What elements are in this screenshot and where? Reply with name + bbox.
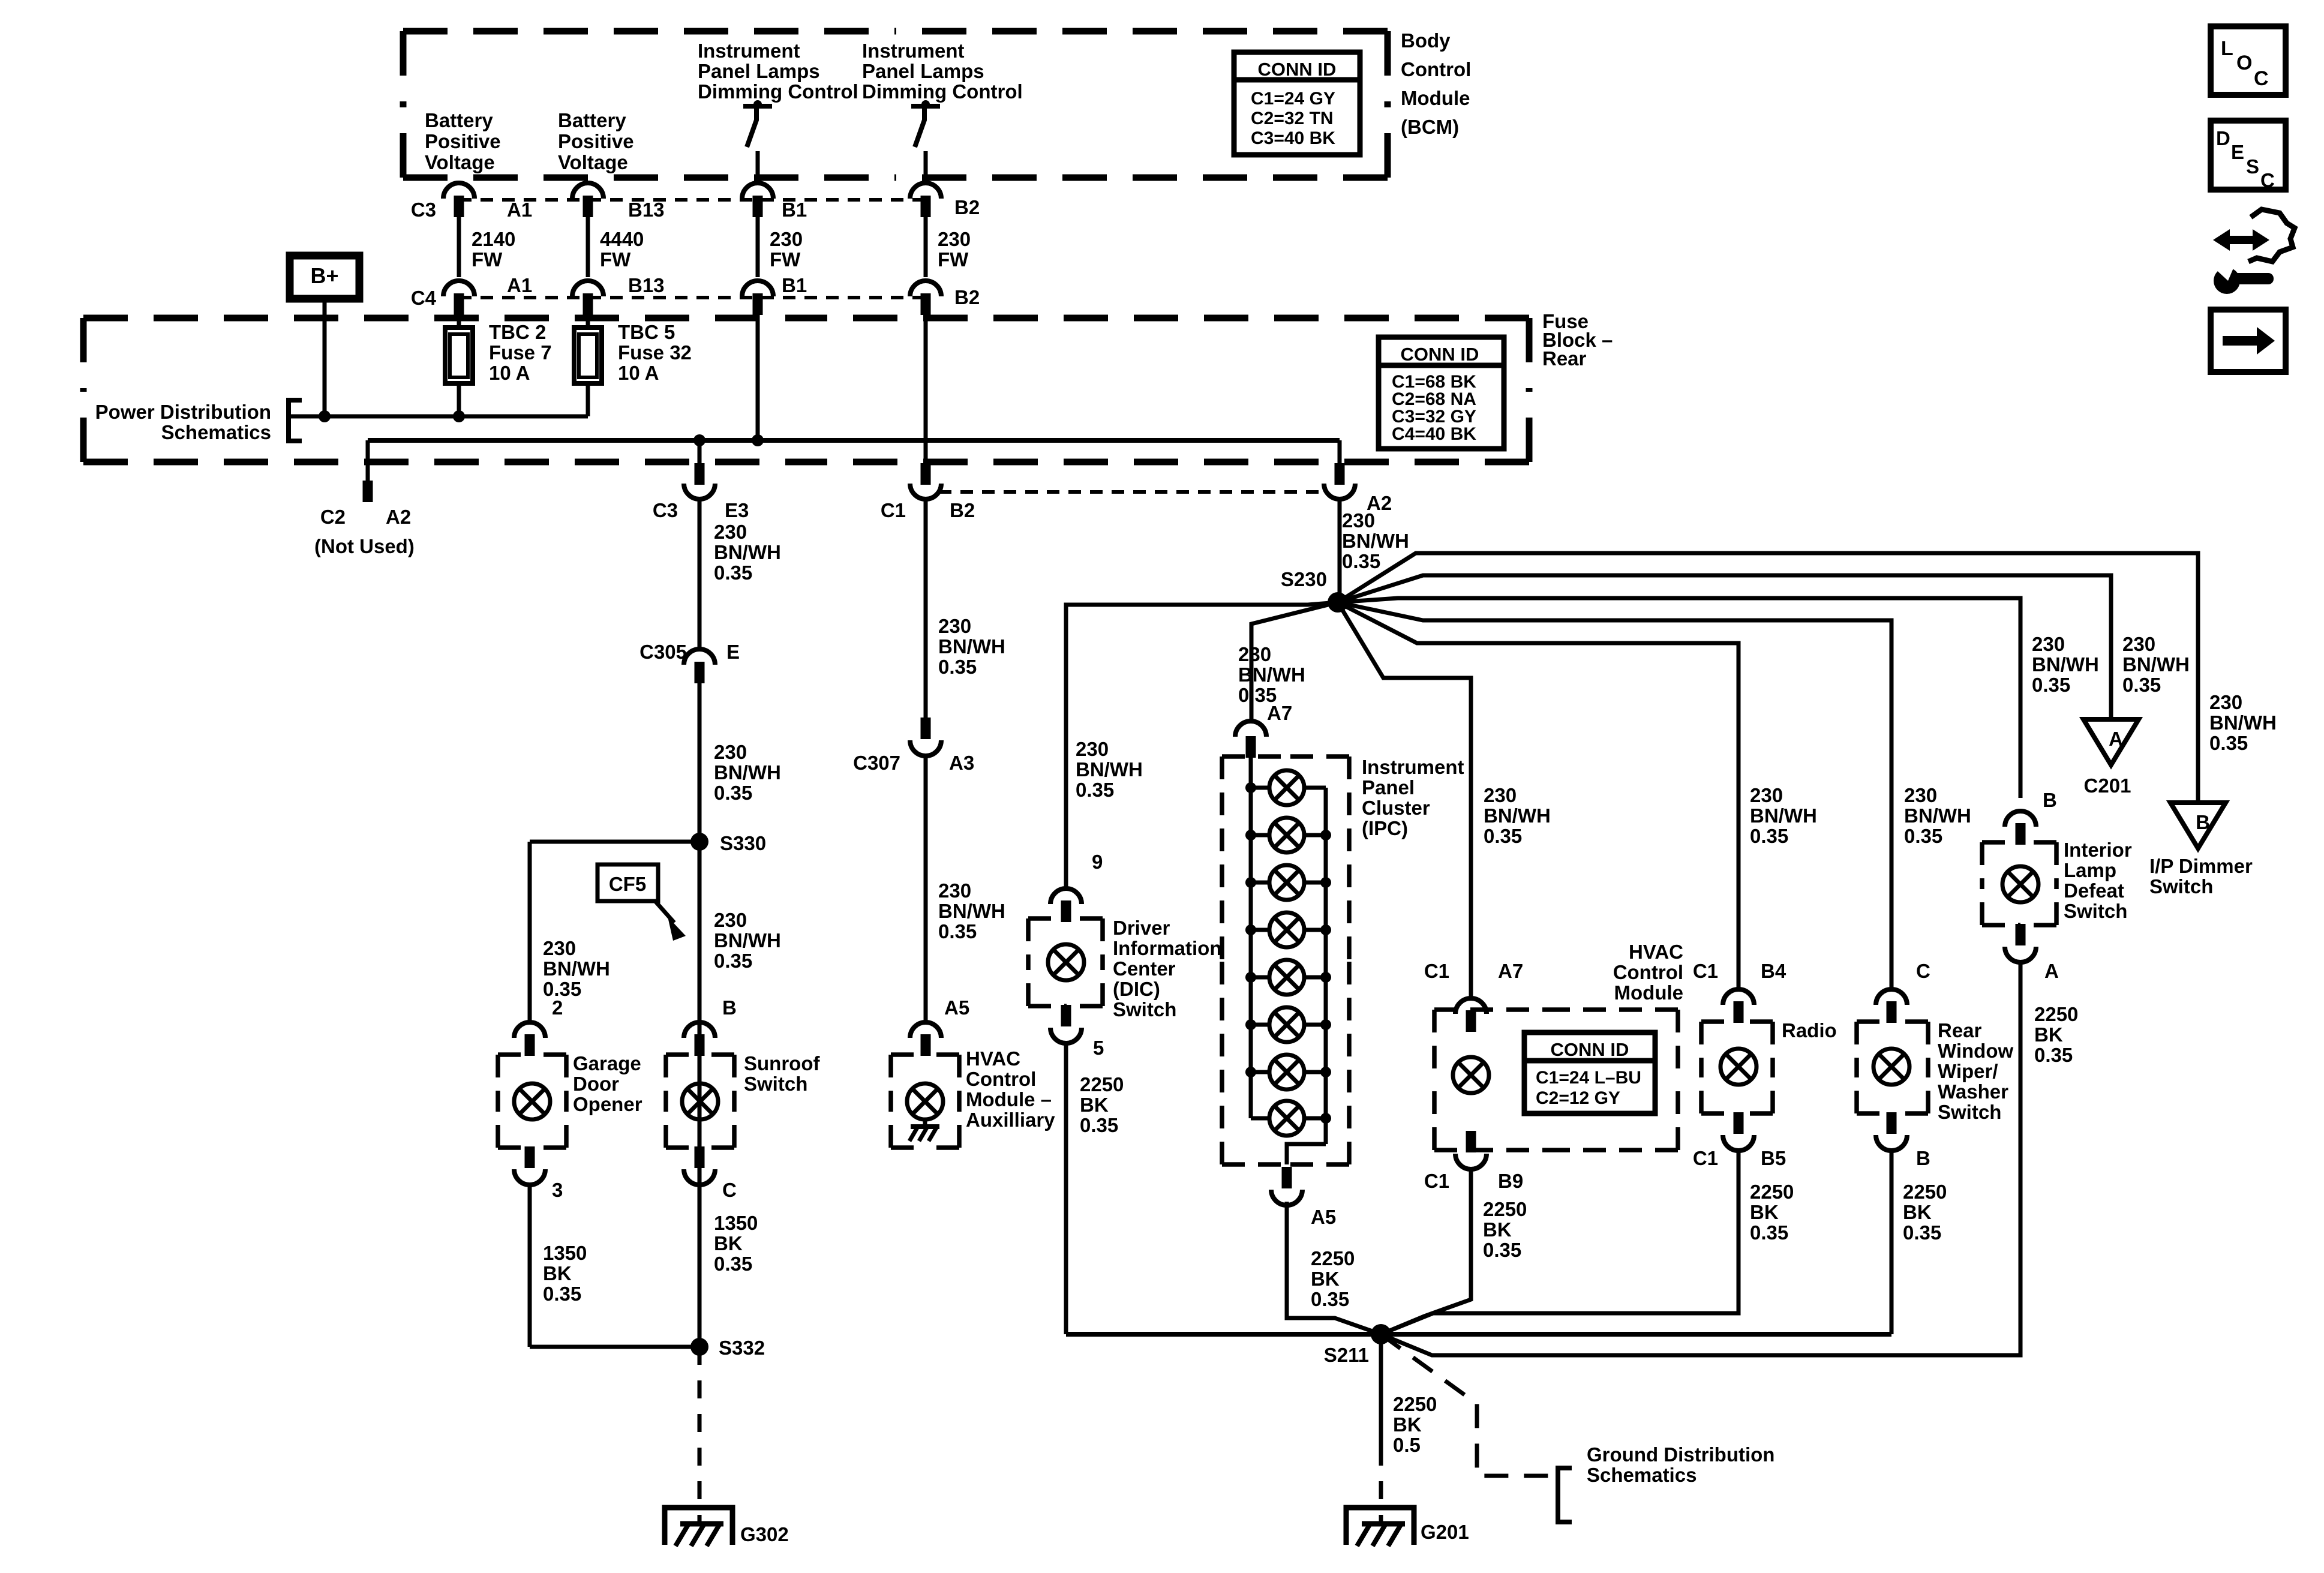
svg-text:FW: FW	[600, 248, 631, 271]
svg-text:230: 230	[714, 741, 747, 763]
svg-text:1350: 1350	[714, 1212, 758, 1234]
svg-text:230: 230	[770, 228, 803, 250]
svg-text:C3=40 BK: C3=40 BK	[1251, 128, 1335, 148]
svg-text:0.35: 0.35	[1750, 825, 1788, 847]
svg-text:Positive: Positive	[425, 130, 501, 152]
svg-text:230: 230	[543, 937, 576, 959]
svg-text:BK: BK	[543, 1262, 572, 1284]
svg-text:C2=32 TN: C2=32 TN	[1251, 109, 1334, 128]
svg-text:BN/WH: BN/WH	[938, 900, 1005, 922]
svg-text:230: 230	[714, 521, 747, 543]
svg-text:C1=24 L–BU: C1=24 L–BU	[1536, 1068, 1641, 1088]
svg-text:230: 230	[714, 909, 747, 931]
svg-text:C: C	[722, 1179, 737, 1201]
svg-text:TBC 2: TBC 2	[489, 321, 546, 343]
svg-text:0.35: 0.35	[714, 562, 752, 584]
svg-text:(IPC): (IPC)	[1362, 817, 1408, 839]
svg-text:Sunroof: Sunroof	[744, 1052, 820, 1074]
svg-text:(DIC): (DIC)	[1113, 978, 1160, 1000]
svg-text:Schematics: Schematics	[1587, 1464, 1697, 1486]
svg-text:2250: 2250	[2034, 1003, 2078, 1025]
svg-text:A5: A5	[944, 996, 969, 1019]
svg-text:Auxilliary: Auxilliary	[966, 1109, 1055, 1131]
svg-text:0.35: 0.35	[714, 950, 752, 972]
svg-text:B2: B2	[954, 286, 980, 308]
svg-text:BN/WH: BN/WH	[1342, 530, 1409, 552]
svg-text:BK: BK	[1311, 1268, 1340, 1290]
svg-text:Cluster: Cluster	[1362, 797, 1430, 819]
svg-text:230: 230	[1076, 738, 1109, 760]
svg-text:C1: C1	[1424, 960, 1449, 982]
svg-text:Rear: Rear	[1542, 347, 1587, 370]
svg-text:G302: G302	[740, 1523, 789, 1545]
svg-text:Battery: Battery	[425, 109, 493, 131]
svg-text:(BCM): (BCM)	[1401, 116, 1459, 138]
svg-text:Panel: Panel	[1362, 776, 1415, 798]
svg-text:Module: Module	[1614, 981, 1683, 1004]
svg-text:B1: B1	[782, 199, 807, 221]
svg-text:0.35: 0.35	[1750, 1221, 1788, 1244]
svg-text:Panel Lamps: Panel Lamps	[862, 60, 984, 82]
svg-text:0.35: 0.35	[1342, 550, 1380, 572]
svg-text:CONN ID: CONN ID	[1551, 1039, 1629, 1060]
svg-text:0.35: 0.35	[1904, 825, 1942, 847]
svg-text:C: C	[2260, 169, 2275, 191]
svg-text:230: 230	[1904, 784, 1937, 806]
svg-text:0.35: 0.35	[714, 782, 752, 804]
svg-text:Switch: Switch	[744, 1073, 807, 1095]
svg-text:FW: FW	[770, 248, 801, 271]
svg-text:A: A	[2044, 960, 2059, 982]
svg-text:10 A: 10 A	[618, 362, 659, 384]
svg-text:Control: Control	[1401, 58, 1471, 80]
svg-text:Panel Lamps: Panel Lamps	[698, 60, 820, 82]
svg-text:Washer: Washer	[1938, 1080, 2008, 1103]
svg-text:C1: C1	[1424, 1170, 1449, 1192]
svg-text:D: D	[2216, 127, 2230, 149]
svg-text:Switch: Switch	[2149, 875, 2213, 897]
svg-text:Switch: Switch	[1113, 998, 1176, 1020]
svg-text:Body: Body	[1401, 29, 1451, 52]
svg-text:Instrument: Instrument	[698, 40, 800, 62]
svg-text:(Not Used): (Not Used)	[314, 535, 415, 557]
svg-text:1350: 1350	[543, 1242, 587, 1264]
svg-text:0.35: 0.35	[2209, 732, 2248, 754]
svg-text:BK: BK	[714, 1232, 743, 1254]
svg-text:C201: C201	[2084, 775, 2131, 797]
svg-text:C3: C3	[653, 499, 678, 521]
svg-text:3: 3	[552, 1179, 563, 1201]
svg-text:0.35: 0.35	[1076, 779, 1114, 801]
svg-text:0.35: 0.35	[1903, 1221, 1941, 1244]
svg-text:C: C	[1916, 960, 1930, 982]
svg-text:S211: S211	[1324, 1344, 1369, 1366]
svg-text:Instrument: Instrument	[862, 40, 965, 62]
svg-text:BN/WH: BN/WH	[714, 541, 781, 563]
svg-text:L: L	[2221, 37, 2233, 60]
svg-text:CONN ID: CONN ID	[1401, 344, 1479, 365]
svg-text:FW: FW	[938, 248, 969, 271]
svg-text:E: E	[2231, 141, 2244, 163]
svg-text:HVAC: HVAC	[966, 1047, 1020, 1070]
svg-text:C2=12 GY: C2=12 GY	[1536, 1088, 1620, 1108]
svg-text:A3: A3	[949, 752, 974, 774]
svg-text:C1: C1	[1693, 1147, 1718, 1169]
svg-text:BN/WH: BN/WH	[1484, 804, 1551, 827]
svg-text:C2: C2	[320, 506, 346, 528]
svg-text:C1: C1	[1693, 960, 1718, 982]
svg-text:B: B	[2196, 811, 2210, 833]
svg-text:2: 2	[552, 996, 563, 1019]
svg-text:10 A: 10 A	[489, 362, 530, 384]
svg-text:0.35: 0.35	[2034, 1044, 2073, 1066]
svg-text:C1=24 GY: C1=24 GY	[1251, 89, 1335, 109]
svg-text:Voltage: Voltage	[425, 151, 495, 173]
svg-text:BK: BK	[1393, 1413, 1422, 1436]
svg-text:230: 230	[938, 615, 971, 637]
svg-text:BK: BK	[1080, 1094, 1109, 1116]
svg-text:S230: S230	[1281, 568, 1327, 590]
svg-text:A1: A1	[507, 199, 532, 221]
svg-text:BK: BK	[1750, 1201, 1779, 1223]
svg-text:A1: A1	[507, 274, 532, 296]
svg-text:B2: B2	[954, 196, 980, 218]
svg-text:0.35: 0.35	[1080, 1114, 1118, 1136]
svg-text:FW: FW	[472, 248, 503, 271]
svg-text:230: 230	[1342, 509, 1375, 532]
svg-text:Dimming Control: Dimming Control	[862, 80, 1023, 103]
svg-text:Rear: Rear	[1938, 1019, 1982, 1041]
svg-text:B2: B2	[950, 499, 975, 521]
svg-text:BK: BK	[2034, 1023, 2063, 1046]
svg-text:BN/WH: BN/WH	[1076, 758, 1143, 781]
svg-text:CF5: CF5	[609, 873, 646, 895]
svg-text:C307: C307	[853, 752, 900, 774]
svg-text:0.5: 0.5	[1393, 1434, 1421, 1456]
svg-text:0.35: 0.35	[2122, 674, 2161, 696]
svg-text:A5: A5	[1311, 1206, 1336, 1228]
svg-text:2250: 2250	[1393, 1393, 1437, 1415]
svg-text:BN/WH: BN/WH	[938, 635, 1005, 658]
svg-text:BN/WH: BN/WH	[2032, 653, 2099, 676]
svg-text:0.35: 0.35	[714, 1253, 752, 1275]
svg-text:BN/WH: BN/WH	[714, 761, 781, 784]
svg-text:230: 230	[2209, 691, 2242, 713]
svg-text:BK: BK	[1483, 1218, 1512, 1241]
svg-text:B4: B4	[1761, 960, 1786, 982]
svg-text:Information: Information	[1113, 937, 1221, 959]
svg-text:Center: Center	[1113, 957, 1176, 980]
svg-text:BN/WH: BN/WH	[1238, 664, 1305, 686]
svg-text:4440: 4440	[600, 228, 644, 250]
svg-text:0.35: 0.35	[938, 656, 977, 678]
svg-text:B13: B13	[628, 199, 665, 221]
svg-text:0.35: 0.35	[543, 1283, 581, 1305]
svg-text:A2: A2	[386, 506, 411, 528]
svg-text:B: B	[722, 996, 737, 1019]
svg-text:A7: A7	[1267, 702, 1292, 724]
svg-text:0.35: 0.35	[1484, 825, 1522, 847]
svg-text:Module –: Module –	[966, 1088, 1052, 1110]
svg-text:BN/WH: BN/WH	[1904, 804, 1971, 827]
svg-text:BN/WH: BN/WH	[1750, 804, 1817, 827]
svg-text:Voltage: Voltage	[558, 151, 628, 173]
svg-text:Schematics: Schematics	[161, 421, 271, 443]
svg-text:230: 230	[1484, 784, 1517, 806]
svg-text:2140: 2140	[472, 228, 515, 250]
svg-text:2250: 2250	[1903, 1181, 1947, 1203]
svg-text:E: E	[726, 641, 740, 663]
svg-text:Ground Distribution: Ground Distribution	[1587, 1443, 1774, 1466]
svg-text:E3: E3	[725, 499, 749, 521]
svg-text:2250: 2250	[1483, 1198, 1527, 1220]
svg-text:230: 230	[2122, 633, 2155, 655]
svg-text:Garage: Garage	[573, 1052, 641, 1074]
svg-text:TBC 5: TBC 5	[618, 321, 675, 343]
svg-text:C3: C3	[411, 199, 436, 221]
svg-text:Switch: Switch	[2064, 900, 2127, 922]
svg-text:0.35: 0.35	[2032, 674, 2070, 696]
svg-text:Wiper/: Wiper/	[1938, 1060, 1998, 1082]
svg-text:S332: S332	[719, 1337, 765, 1359]
svg-text:230: 230	[938, 228, 971, 250]
svg-text:Fuse 7: Fuse 7	[489, 341, 552, 364]
svg-text:C: C	[2254, 67, 2269, 90]
svg-text:230: 230	[1750, 784, 1783, 806]
svg-text:Module: Module	[1401, 87, 1470, 109]
svg-text:CONN ID: CONN ID	[1258, 59, 1337, 80]
svg-text:HVAC: HVAC	[1629, 941, 1683, 963]
svg-text:B: B	[1916, 1147, 1930, 1169]
svg-text:Driver: Driver	[1113, 917, 1170, 939]
svg-text:Power Distribution: Power Distribution	[95, 401, 271, 423]
svg-text:0.35: 0.35	[938, 920, 977, 942]
svg-text:2250: 2250	[1311, 1247, 1355, 1269]
svg-text:Lamp: Lamp	[2064, 859, 2116, 881]
svg-text:BN/WH: BN/WH	[2122, 653, 2190, 676]
svg-text:9: 9	[1092, 851, 1103, 873]
svg-text:Radio: Radio	[1782, 1019, 1837, 1041]
svg-text:C305: C305	[639, 641, 687, 663]
svg-text:G201: G201	[1421, 1521, 1469, 1543]
svg-text:0.35: 0.35	[1483, 1239, 1521, 1261]
svg-text:B9: B9	[1498, 1170, 1523, 1192]
svg-text:Control: Control	[1613, 961, 1683, 983]
svg-text:O: O	[2236, 52, 2252, 74]
svg-text:0.35: 0.35	[1311, 1288, 1349, 1310]
svg-text:B13: B13	[628, 274, 665, 296]
svg-text:S330: S330	[720, 832, 766, 854]
svg-text:BK: BK	[1903, 1201, 1932, 1223]
svg-text:A7: A7	[1498, 960, 1523, 982]
svg-text:BN/WH: BN/WH	[543, 957, 610, 980]
svg-text:2250: 2250	[1080, 1073, 1124, 1095]
svg-text:Defeat: Defeat	[2064, 879, 2124, 902]
svg-text:A: A	[2109, 728, 2123, 750]
svg-text:B: B	[2043, 789, 2057, 811]
svg-text:B+: B+	[310, 263, 338, 288]
svg-text:Switch: Switch	[1938, 1101, 2001, 1123]
svg-text:5: 5	[1093, 1037, 1104, 1059]
svg-text:BN/WH: BN/WH	[714, 929, 781, 951]
svg-text:Opener: Opener	[573, 1093, 642, 1115]
svg-text:BN/WH: BN/WH	[2209, 712, 2277, 734]
svg-text:I/P Dimmer: I/P Dimmer	[2149, 855, 2253, 877]
svg-text:B5: B5	[1761, 1147, 1786, 1169]
svg-text:Door: Door	[573, 1073, 619, 1095]
svg-text:Positive: Positive	[558, 130, 634, 152]
svg-text:230: 230	[2032, 633, 2065, 655]
svg-text:230: 230	[938, 879, 971, 902]
svg-text:C4: C4	[411, 287, 437, 309]
svg-text:Window: Window	[1938, 1040, 2013, 1062]
svg-text:2250: 2250	[1750, 1181, 1794, 1203]
svg-text:Interior: Interior	[2064, 839, 2132, 861]
svg-text:C4=40 BK: C4=40 BK	[1392, 424, 1476, 444]
svg-text:Dimming Control: Dimming Control	[698, 80, 858, 103]
svg-text:Fuse 32: Fuse 32	[618, 341, 692, 364]
svg-text:C1: C1	[881, 499, 906, 521]
svg-text:230: 230	[1238, 643, 1271, 665]
svg-text:B1: B1	[782, 274, 807, 296]
svg-text:Instrument: Instrument	[1362, 756, 1464, 778]
svg-text:Control: Control	[966, 1068, 1036, 1090]
svg-text:Battery: Battery	[558, 109, 626, 131]
svg-text:S: S	[2246, 155, 2259, 178]
